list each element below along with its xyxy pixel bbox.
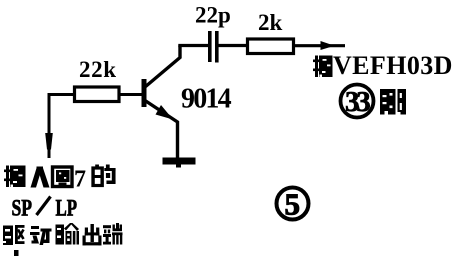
transistor Q1 collector line up to top wire <box>145 46 180 88</box>
svg-text:33: 33 <box>345 86 370 118</box>
resistor R2 body <box>248 39 294 54</box>
pin number circle 33 <box>341 85 374 118</box>
wire: R1 to transistor base <box>119 93 142 96</box>
slash <box>37 197 51 216</box>
char 动 <box>30 226 52 245</box>
wire: collector corner to capacitor C1 <box>178 44 209 47</box>
resistor R1 body <box>75 87 120 102</box>
svg-text:22p: 22p <box>195 3 231 28</box>
char 入 <box>31 167 50 188</box>
svg-text:9014: 9014 <box>181 84 232 115</box>
char 端 <box>103 223 123 245</box>
wire: output to the right <box>294 44 346 47</box>
stray mark bottom left <box>14 250 19 256</box>
transistor Q1 base bar <box>142 79 147 107</box>
capacitor C1 right plate <box>215 31 219 63</box>
wire: C1 to resistor R2 <box>219 44 248 47</box>
ground nub <box>176 165 181 168</box>
svg-text:2k: 2k <box>258 10 283 35</box>
wire: input vertical with corner to resistor R1 <box>49 95 74 159</box>
svg-text:VEFH03D: VEFH03D <box>333 51 453 80</box>
char 输 <box>56 223 80 245</box>
transistor Q1 emitter line <box>145 101 178 159</box>
svg-text:LP: LP <box>56 196 78 221</box>
ground symbol bar <box>163 158 196 165</box>
svg-text:7: 7 <box>74 167 86 193</box>
input arrow pointing down on left wire <box>45 133 53 150</box>
emitter arrow <box>156 105 174 120</box>
svg-text:5: 5 <box>285 187 301 222</box>
svg-text:22k: 22k <box>79 57 117 82</box>
output arrow pointing right <box>321 41 335 50</box>
label: CJK char 脚 <box>380 89 406 115</box>
text line: 驱动输出端 : char 驱 <box>3 225 25 245</box>
char 图 <box>53 167 73 187</box>
circled number 5 <box>277 188 309 220</box>
text line: 接入图7的 : char 接 <box>4 166 26 188</box>
svg-text:SP: SP <box>12 196 33 221</box>
label: CJK char 接 (of 接VEFH03D) <box>313 56 333 78</box>
char 出 <box>83 224 102 245</box>
capacitor C1 left plate <box>208 31 212 62</box>
char 的 <box>93 165 115 186</box>
